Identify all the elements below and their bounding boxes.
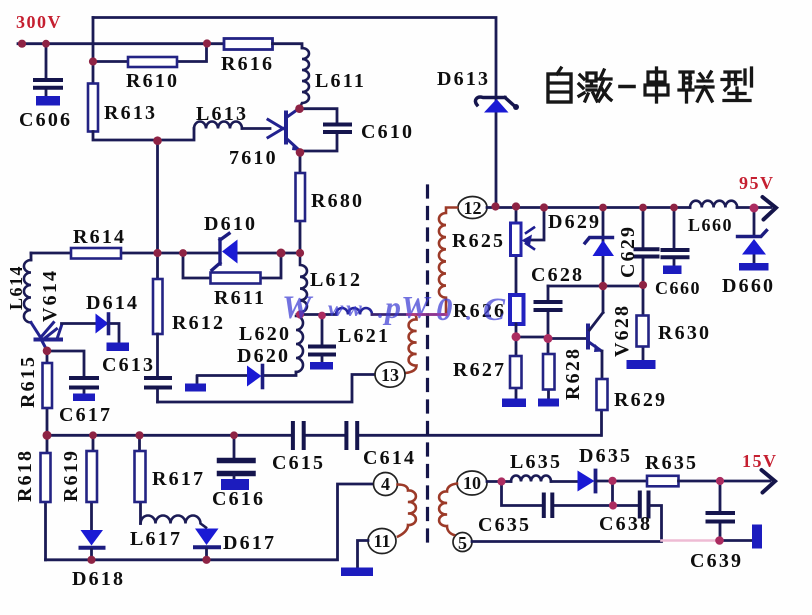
- svg-text:L611: L611: [315, 70, 366, 92]
- transformer winding pins 4-11 (red): [398, 485, 416, 537]
- resistor R615: [46, 351, 49, 435]
- svg-text:R635: R635: [645, 452, 698, 474]
- svg-text:D618: D618: [72, 568, 125, 590]
- svg-text:C629: C629: [617, 225, 639, 278]
- svg-text:R629: R629: [614, 389, 667, 411]
- wire R616 to L611 corner: [273, 44, 303, 48]
- svg-text:R615: R615: [17, 355, 39, 408]
- svg-text:0: 0: [436, 292, 453, 328]
- inductor L612: [300, 253, 307, 314]
- wire pin5 row y541: [472, 540, 662, 543]
- svg-text:R610: R610: [126, 70, 179, 92]
- capacitor C639: [719, 481, 722, 540]
- capacitor C629: [642, 208, 645, 286]
- svg-text:L612: L612: [310, 269, 362, 291]
- inductor L613: [194, 122, 242, 129]
- wire R613 bottom to L613 row: [93, 129, 194, 141]
- top right rail 95V: [487, 206, 771, 209]
- svg-text:R628: R628: [562, 347, 584, 400]
- svg-text:C635: C635: [478, 514, 531, 536]
- resistor R613: [88, 84, 98, 132]
- wire base row y337: [516, 337, 586, 339]
- transistor 7610: [268, 109, 299, 151]
- svg-text:C606: C606: [19, 109, 72, 131]
- svg-text:D660: D660: [722, 275, 775, 297]
- svg-text:L621: L621: [338, 325, 390, 347]
- diode D614 row: [62, 324, 120, 343]
- diode D617: [195, 529, 219, 546]
- svg-text:C660: C660: [655, 278, 701, 298]
- svg-text:C: C: [483, 292, 506, 328]
- trimmer R625 wiper arm: [526, 208, 544, 241]
- inductor L614: [24, 260, 31, 323]
- svg-text:300V: 300V: [16, 12, 62, 32]
- capacitor C613 ground bar: [107, 343, 130, 352]
- svg-text:4: 4: [381, 474, 390, 494]
- title 自激-串联型 hand strokes: [548, 68, 752, 102]
- svg-text:C617: C617: [59, 404, 112, 426]
- svg-text:L614: L614: [6, 265, 26, 310]
- svg-text:C610: C610: [361, 121, 414, 143]
- capacitor C628: [547, 286, 550, 339]
- svg-text:D635: D635: [579, 445, 632, 467]
- resistor R619: [92, 435, 94, 530]
- node circle 12: [458, 197, 487, 219]
- wire D635 node down: [611, 481, 614, 506]
- char 型: [722, 68, 752, 101]
- svg-text:D620: D620: [237, 345, 290, 367]
- svg-text:R617: R617: [152, 468, 205, 490]
- svg-text:13: 13: [381, 365, 399, 385]
- capacitor C638: [640, 493, 649, 517]
- trimmer R625: [515, 208, 518, 296]
- svg-text:L635: L635: [510, 451, 562, 473]
- svg-text:.: .: [466, 300, 472, 326]
- diode D620 row: [197, 372, 296, 384]
- resistor R618: [46, 435, 48, 560]
- capacitor C610 loop: [299, 109, 337, 151]
- svg-text:R680: R680: [311, 190, 364, 212]
- dash: [620, 85, 634, 89]
- ground for pin 11: [358, 541, 369, 568]
- svg-text:D610: D610: [204, 213, 257, 235]
- resistor R612: [153, 279, 163, 334]
- node circle 10: [457, 471, 487, 495]
- resistor R630: [642, 285, 645, 360]
- zener D660: [753, 208, 756, 264]
- svg-text:5: 5: [458, 533, 467, 553]
- svg-text:pW: pW: [382, 289, 432, 325]
- node circle 11: [368, 529, 396, 554]
- capacitor under L621 with ground: [321, 316, 324, 345]
- svg-text:11: 11: [373, 531, 390, 551]
- capacitor C606: [45, 44, 48, 96]
- node circle 4: [374, 473, 398, 496]
- svg-text:L617: L617: [130, 528, 182, 550]
- capacitor C617: [47, 351, 84, 394]
- svg-text:D629: D629: [548, 211, 601, 233]
- magenta tint over wire near transformer: [406, 313, 448, 316]
- svg-text:C613: C613: [102, 354, 155, 376]
- wire top rail 300V horizontal: [18, 42, 224, 45]
- inductor L620: [296, 316, 303, 372]
- svg-text:ww: ww: [328, 296, 365, 321]
- node circle 13: [375, 362, 405, 387]
- wire y286 C628 to C629: [548, 285, 643, 288]
- char 联: [679, 72, 713, 102]
- svg-text:C638: C638: [599, 513, 652, 535]
- svg-text:12: 12: [464, 198, 482, 218]
- capacitor C635 branch: [502, 482, 638, 506]
- inductor L660: [690, 201, 737, 208]
- inductor L611: [300, 48, 310, 109]
- svg-text:R619: R619: [60, 449, 82, 502]
- resistor R680: [299, 153, 302, 253]
- svg-text:V628: V628: [611, 304, 633, 357]
- capacitor C614: [346, 423, 357, 448]
- svg-text:C639: C639: [690, 550, 743, 572]
- wire L613 to base of 7610: [242, 127, 270, 130]
- watermark www.pW0.C: [282, 289, 506, 328]
- resistor R635: [647, 476, 679, 487]
- resistor R627: [515, 337, 518, 399]
- svg-text:C614: C614: [363, 447, 416, 469]
- svg-text:L613: L613: [196, 103, 248, 125]
- resistor R626: [510, 295, 524, 324]
- arrow 15V output: [762, 470, 776, 493]
- transistor V628: [586, 326, 590, 348]
- wire pin10 to L635: [487, 480, 511, 483]
- transistor V614: [31, 323, 62, 351]
- svg-text:95V: 95V: [739, 173, 775, 193]
- bottom-left rail y560: [46, 484, 374, 560]
- inductor L617: [141, 516, 207, 528]
- diode D635: [578, 471, 595, 492]
- wire L621 to transformer: [372, 313, 446, 316]
- svg-text:R618: R618: [14, 449, 36, 502]
- svg-text:W: W: [282, 290, 314, 326]
- zener D613: [475, 97, 514, 106]
- char 激: [579, 70, 611, 101]
- wire top loop: [93, 18, 496, 207]
- arrow 95V output: [763, 197, 777, 220]
- svg-text:V614: V614: [39, 269, 61, 322]
- bottom bus y435: [47, 434, 601, 437]
- svg-text:R627: R627: [453, 359, 506, 381]
- svg-text:R613: R613: [104, 102, 157, 124]
- resistor R614: [71, 248, 121, 259]
- wire y314 row: [297, 313, 336, 316]
- transformer winding pin13 primary (red): [406, 315, 417, 374]
- zener D629: [602, 208, 605, 287]
- char 串: [645, 68, 668, 102]
- resistor R628: [547, 339, 550, 399]
- wire left vertical x93: [92, 18, 95, 84]
- svg-text:10: 10: [463, 473, 481, 493]
- zener D610: [212, 234, 229, 271]
- node circle 5: [453, 533, 472, 552]
- wire R614 left to L614: [30, 253, 33, 260]
- inductor L621: [336, 308, 372, 315]
- svg-text:C628: C628: [531, 264, 584, 286]
- wire x158 vertical: [156, 140, 159, 279]
- svg-text:C615: C615: [272, 452, 325, 474]
- wire row 253: [31, 252, 300, 255]
- capacitor under R612: [156, 334, 159, 402]
- svg-text:L620: L620: [239, 323, 291, 345]
- svg-text:R612: R612: [172, 312, 225, 334]
- svg-text:R630: R630: [658, 322, 711, 344]
- svg-text:R625: R625: [452, 230, 505, 252]
- svg-text:C616: C616: [212, 488, 265, 510]
- svg-text:D617: D617: [223, 532, 276, 554]
- svg-text:R614: R614: [73, 226, 126, 248]
- capacitor C660: [673, 208, 676, 266]
- svg-text:D613: D613: [437, 68, 490, 90]
- transformer winding pin12 (red): [439, 208, 457, 315]
- resistor R611 parallel branch: [183, 253, 281, 278]
- resistor R616: [224, 39, 273, 50]
- wire y402 to node 13 riser: [158, 375, 376, 403]
- svg-text:R611: R611: [214, 287, 266, 309]
- svg-text:7610: 7610: [229, 147, 278, 169]
- capacitor C615: [293, 423, 304, 448]
- resistor R629: [600, 351, 603, 435]
- svg-text:15V: 15V: [742, 451, 778, 471]
- char 自: [548, 68, 571, 102]
- capacitor C616: [233, 435, 236, 457]
- inductor L635: [511, 476, 551, 482]
- svg-text:R616: R616: [221, 53, 274, 75]
- svg-text:L660: L660: [688, 215, 733, 235]
- resistor R610: [95, 44, 207, 62]
- faded wire segment: [662, 539, 717, 542]
- ground for C639 (sideways bar): [752, 525, 762, 549]
- svg-text:D614: D614: [86, 292, 139, 314]
- transformer winding pins 10-5 (red): [439, 484, 457, 536]
- diode D618: [81, 530, 104, 546]
- svg-text:.: .: [378, 298, 384, 323]
- dashed transformer separator: [426, 186, 429, 545]
- resistor R617: [140, 435, 141, 524]
